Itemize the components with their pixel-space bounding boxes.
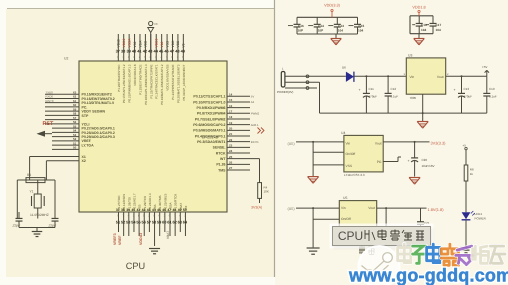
- svg-text:www.go-gddq.com: www.go-gddq.com: [348, 266, 508, 285]
